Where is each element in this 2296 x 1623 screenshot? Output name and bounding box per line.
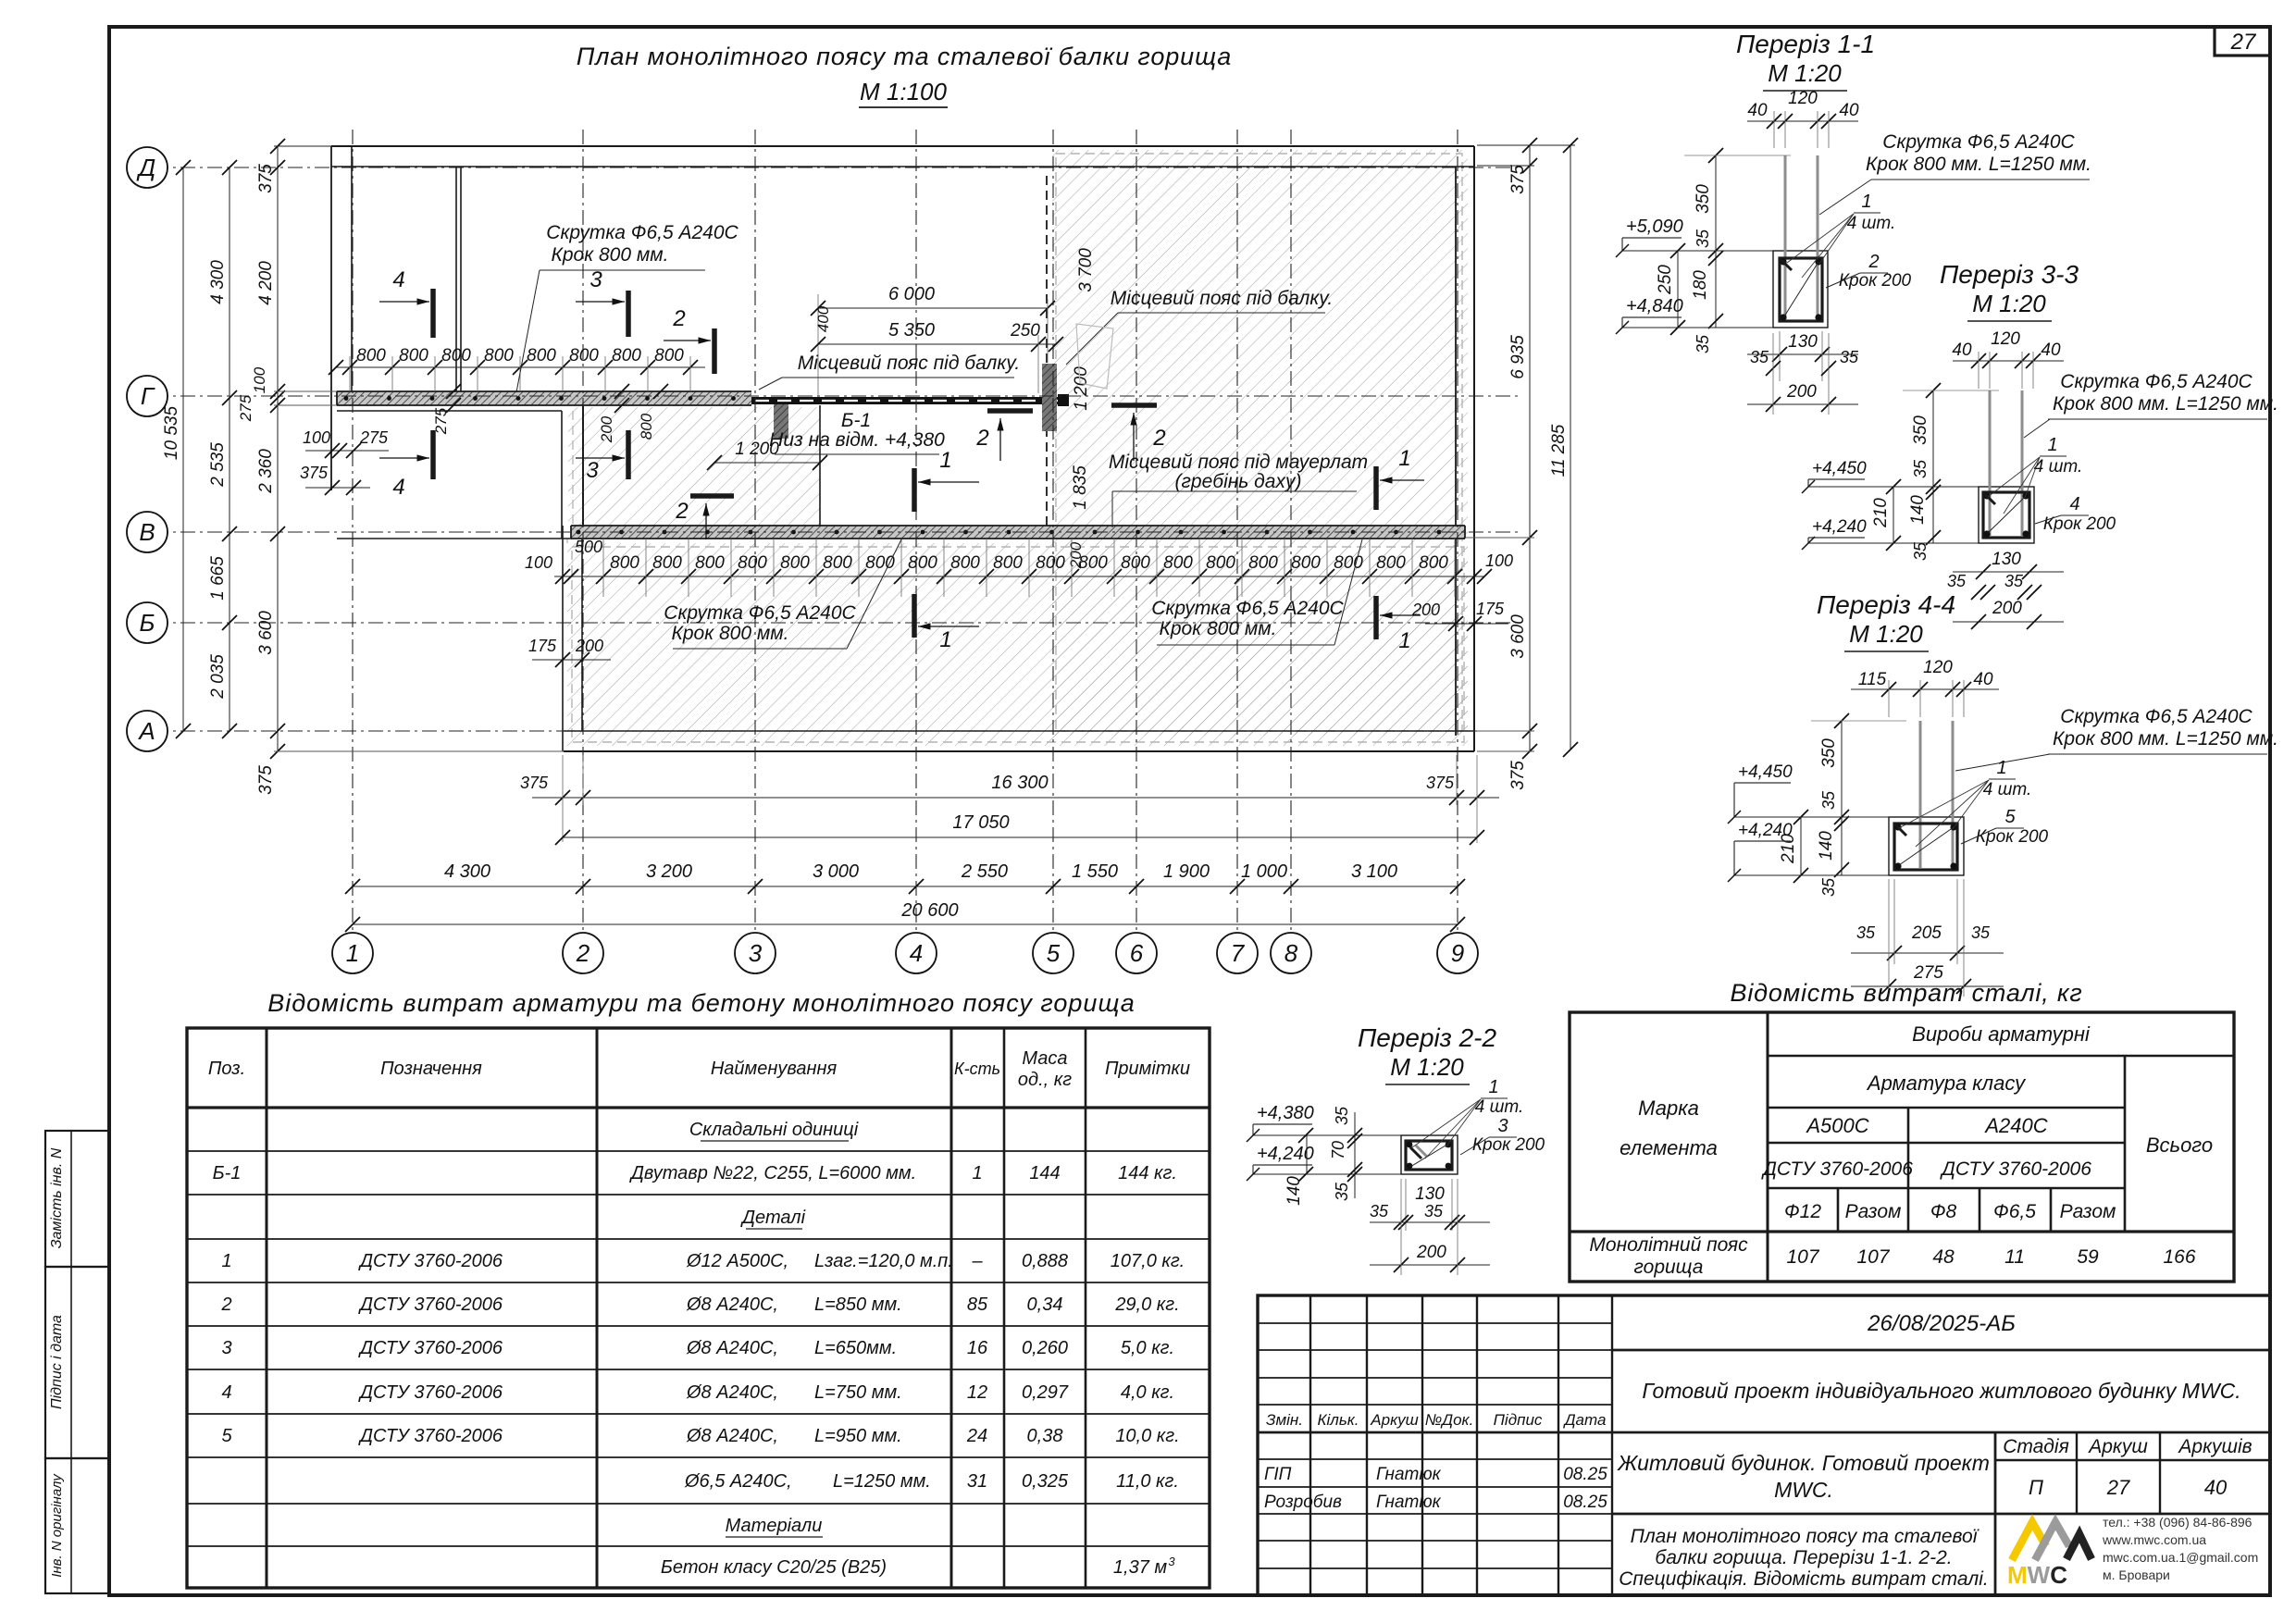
svg-text:175: 175 [1476, 600, 1505, 618]
svg-text:205: 205 [1911, 923, 1942, 943]
svg-text:800: 800 [610, 553, 639, 573]
svg-text:Крок 800 мм.: Крок 800 мм. [672, 623, 789, 644]
svg-text:35: 35 [1694, 229, 1712, 248]
svg-text:Разом: Разом [2060, 1201, 2116, 1222]
svg-text:115: 115 [1858, 670, 1887, 689]
bottom-left wall verticals [562, 526, 564, 751]
axis Д horizontal line [127, 167, 1522, 168]
small belt dims left [305, 450, 389, 452]
svg-text:+4,450: +4,450 [1738, 762, 1793, 782]
svg-text:ДСТУ 3760-2006: ДСТУ 3760-2006 [1761, 1158, 1913, 1180]
svg-text:11,0 кг.: 11,0 кг. [1116, 1471, 1179, 1492]
svg-text:Переріз 4-4: Переріз 4-4 [1817, 590, 1955, 619]
svg-text:6: 6 [1130, 939, 1144, 967]
top wall inner edge [331, 166, 1474, 167]
svg-text:Інв. N оригіналу: Інв. N оригіналу [49, 1473, 65, 1578]
svg-text:1: 1 [2047, 435, 2057, 455]
axis circle 4 [896, 933, 937, 973]
svg-text:35: 35 [1370, 1202, 1389, 1220]
svg-text:800: 800 [612, 346, 641, 365]
svg-text:27: 27 [2230, 30, 2257, 55]
svg-text:800: 800 [1163, 553, 1193, 573]
svg-text:800: 800 [1334, 553, 1363, 573]
svg-text:М 1:20: М 1:20 [1972, 290, 2046, 317]
monolithic belt on axis В [571, 526, 1465, 539]
svg-text:Ø12 А500С,: Ø12 А500С, [686, 1251, 788, 1271]
svg-text:130: 130 [1788, 332, 1818, 352]
bottom wall lines [564, 730, 1474, 732]
svg-text:Низ на відм. +4,380: Низ на відм. +4,380 [769, 429, 945, 451]
svg-text:35: 35 [1911, 459, 1930, 478]
svg-text:10 535: 10 535 [162, 406, 181, 461]
svg-text:2 535: 2 535 [208, 442, 228, 488]
svg-text:1 835: 1 835 [1071, 465, 1090, 510]
svg-text:од., кг: од., кг [1018, 1070, 1072, 1090]
svg-text:1 900: 1 900 [1163, 861, 1210, 882]
svg-text:800: 800 [738, 553, 767, 573]
svg-text:Гнатюк: Гнатюк [1376, 1465, 1442, 1484]
svg-text:Крок 800 мм. L=1250 мм.: Крок 800 мм. L=1250 мм. [2053, 393, 2278, 415]
svg-text:ДСТУ 3760-2006: ДСТУ 3760-2006 [358, 1426, 503, 1446]
svg-text:375: 375 [1426, 774, 1455, 792]
svg-text:0,34: 0,34 [1027, 1295, 1063, 1315]
svg-text:Специфікація. Відомість витрат: Специфікація. Відомість витрат сталі. [1619, 1568, 1988, 1590]
svg-text:140: 140 [1908, 495, 1928, 525]
svg-text:140: 140 [1817, 831, 1836, 861]
svg-text:5,0 кг.: 5,0 кг. [1121, 1338, 1174, 1358]
svg-text:Відомість витрат сталі, кг: Відомість витрат сталі, кг [1731, 979, 2083, 1007]
svg-text:Місцевий пояс під мауерлат: Місцевий пояс під мауерлат [1109, 452, 1368, 473]
svg-text:+4,240: +4,240 [1738, 821, 1793, 840]
svg-text:MWC.: MWC. [1774, 1478, 1833, 1502]
svg-text:ДСТУ 3760-2006: ДСТУ 3760-2006 [358, 1251, 503, 1271]
svg-text:5 350: 5 350 [888, 320, 935, 341]
svg-text:Бетон класу С20/25 (В25): Бетон класу С20/25 (В25) [661, 1557, 887, 1578]
section marker 2 [712, 328, 717, 374]
svg-text:План монолітного поясу та стал: План монолітного поясу та сталевої балки… [577, 43, 1232, 70]
axis 4 vertical line [915, 130, 917, 931]
hidden wall dashed at x=1131 [1046, 176, 1048, 526]
svg-text:4 шт.: 4 шт. [1475, 1097, 1524, 1117]
svg-text:350: 350 [1694, 184, 1713, 214]
svg-text:26/08/2025-АБ: 26/08/2025-АБ [1867, 1311, 2016, 1336]
hatched region bottom (R3) [567, 543, 1468, 746]
svg-text:Аркуш: Аркуш [2087, 1436, 2148, 1457]
svg-text:800: 800 [695, 553, 725, 573]
steel table [1570, 1012, 2234, 1282]
svg-text:210: 210 [1871, 498, 1891, 528]
dim row 800 below belt В [554, 576, 1484, 577]
section marker 3 [626, 430, 631, 479]
svg-text:mwc.com.ua.1@gmail.com: mwc.com.ua.1@gmail.com [2103, 1550, 2258, 1565]
svg-text:А500С: А500С [1805, 1114, 1868, 1137]
svg-text:35: 35 [1856, 923, 1876, 942]
svg-text:А240С: А240С [1983, 1114, 2047, 1137]
svg-text:1: 1 [939, 627, 951, 652]
svg-text:800: 800 [823, 553, 852, 573]
svg-text:Крок 800 мм.: Крок 800 мм. [1160, 618, 1277, 639]
section marker 1 [912, 594, 917, 638]
svg-text:200: 200 [1992, 599, 2022, 618]
svg-text:35: 35 [1424, 1202, 1444, 1220]
svg-text:Переріз 3-3: Переріз 3-3 [1940, 260, 2079, 289]
svg-text:08.25: 08.25 [1563, 1493, 1607, 1512]
axis 9 vertical line [1457, 130, 1458, 931]
axis В horizontal line [127, 531, 1522, 533]
svg-text:0,38: 0,38 [1027, 1426, 1063, 1446]
svg-text:3 200: 3 200 [646, 861, 692, 882]
svg-text:Складальні одиниці: Складальні одиниці [689, 1120, 859, 1140]
svg-text:800: 800 [1121, 553, 1150, 573]
axis 7 vertical line [1236, 130, 1238, 931]
section 3-3 bottom dims [1953, 571, 2064, 573]
svg-text:М 1:100: М 1:100 [860, 78, 947, 105]
svg-text:100: 100 [251, 366, 268, 393]
svg-text:29,0 кг.: 29,0 кг. [1114, 1295, 1179, 1315]
svg-text:4 шт.: 4 шт. [2034, 457, 2083, 477]
svg-text:1: 1 [1488, 1077, 1498, 1097]
svg-text:1: 1 [1398, 446, 1410, 471]
svg-text:Ø8 А240С,: Ø8 А240С, [686, 1426, 778, 1446]
axis circle 8 [1271, 933, 1311, 973]
dim 20600 [353, 923, 1458, 925]
dim column axis spans left [229, 167, 230, 731]
axis 1 vertical line [352, 130, 354, 931]
svg-text:Кільк.: Кільк. [1317, 1411, 1359, 1429]
svg-text:2: 2 [975, 426, 988, 451]
spec table [187, 1028, 1210, 1588]
svg-text:4 шт.: 4 шт. [1847, 214, 1896, 233]
svg-text:Маса: Маса [1022, 1048, 1067, 1069]
svg-text:Крок 200: Крок 200 [1472, 1135, 1545, 1155]
svg-text:6 935: 6 935 [1508, 335, 1528, 379]
section 4-4 top dims [1851, 688, 1999, 690]
svg-text:Скрутка Ф6,5 А240С: Скрутка Ф6,5 А240С [2060, 706, 2253, 727]
svg-text:3 600: 3 600 [1508, 614, 1528, 659]
svg-text:40: 40 [2041, 341, 2061, 360]
svg-text:К-сть: К-сть [954, 1059, 1000, 1078]
svg-text:м. Бровари: м. Бровари [2103, 1567, 2170, 1582]
svg-text:5: 5 [221, 1426, 232, 1446]
svg-text:Д: Д [136, 154, 155, 181]
svg-text:Аркушів: Аркушів [2177, 1436, 2252, 1457]
section marker 4 [430, 430, 436, 479]
section marker 2 [987, 408, 1033, 414]
svg-text:1 550: 1 550 [1072, 861, 1118, 882]
svg-text:+4,380: +4,380 [1257, 1103, 1314, 1123]
svg-text:35: 35 [1333, 1182, 1351, 1201]
svg-text:План монолітного поясу та стал: План монолітного поясу та сталевої [1631, 1526, 1980, 1547]
axis circle 6 [1116, 933, 1157, 973]
svg-text:800: 800 [484, 346, 514, 365]
right wall outer [1473, 146, 1475, 751]
svg-text:L=850 мм.: L=850 мм. [814, 1295, 902, 1315]
svg-text:L=1250 мм.: L=1250 мм. [833, 1471, 931, 1492]
left wall inner [351, 146, 353, 391]
section 1-1 bottom dims [1747, 353, 1858, 355]
svg-text:3: 3 [586, 458, 599, 483]
section 2-2 left dims [1354, 1112, 1356, 1198]
svg-text:7: 7 [1231, 939, 1246, 967]
svg-text:120: 120 [1991, 329, 2020, 349]
section 4-4 [1889, 817, 1964, 875]
svg-text:Гнатюк: Гнатюк [1376, 1493, 1442, 1512]
svg-text:175: 175 [528, 637, 557, 655]
section 1-1 [1773, 251, 1828, 328]
svg-text:М 1:20: М 1:20 [1768, 59, 1842, 87]
svg-text:200: 200 [1411, 601, 1440, 619]
axis 8 vertical line [1290, 130, 1292, 931]
section 3-3 top dims [1953, 360, 2064, 362]
svg-text:800: 800 [780, 553, 810, 573]
svg-text:Ø8 А240С,: Ø8 А240С, [686, 1338, 778, 1358]
svg-text:375: 375 [1508, 165, 1528, 194]
svg-text:17 050: 17 050 [952, 812, 1009, 833]
svg-text:800: 800 [1078, 553, 1108, 573]
svg-text:Всього: Всього [2146, 1134, 2213, 1157]
svg-text:№Док.: №Док. [1425, 1411, 1474, 1429]
svg-text:100: 100 [525, 553, 552, 572]
section 2-2 column [1401, 1135, 1458, 1174]
svg-text:1 200: 1 200 [1072, 366, 1091, 411]
svg-text:800: 800 [569, 346, 599, 365]
svg-text:Крок 800 мм. L=1250 мм.: Крок 800 мм. L=1250 мм. [2053, 728, 2278, 750]
axis 6 vertical line [1136, 130, 1137, 931]
left wall outer [330, 146, 332, 490]
svg-text:Скрутка Ф6,5 А240С: Скрутка Ф6,5 А240С [546, 222, 738, 243]
dim column 11285 [1570, 145, 1571, 750]
svg-text:Двутавр №22, С255, L=6000 мм.: Двутавр №22, С255, L=6000 мм. [629, 1163, 916, 1183]
svg-text:140: 140 [1285, 1176, 1304, 1206]
svg-text:MWC: MWC [2007, 1561, 2067, 1589]
svg-text:4: 4 [221, 1382, 231, 1403]
svg-text:375: 375 [256, 164, 276, 193]
svg-text:Позначення: Позначення [380, 1059, 482, 1079]
svg-text:Монолітний пояс: Монолітний пояс [1589, 1234, 1748, 1256]
svg-text:200: 200 [598, 415, 615, 443]
svg-text:40: 40 [1839, 101, 1859, 120]
section 1-1 left dims [1715, 155, 1717, 328]
top wall outer edge [331, 145, 1474, 147]
svg-text:800: 800 [1248, 553, 1278, 573]
svg-text:10,0 кг.: 10,0 кг. [1115, 1426, 1179, 1446]
svg-text:Підпис: Підпис [1494, 1411, 1543, 1429]
svg-text:ДСТУ 3760-2006: ДСТУ 3760-2006 [1940, 1158, 2091, 1180]
axis 3 vertical line [754, 130, 756, 931]
svg-text:5: 5 [1047, 939, 1061, 967]
steel beam B-1 [751, 397, 1062, 404]
svg-text:31: 31 [967, 1471, 987, 1492]
svg-text:500: 500 [575, 538, 602, 556]
svg-text:35: 35 [2004, 572, 2024, 590]
dim 5350 / 250 [818, 343, 1056, 345]
svg-text:Аркуш: Аркуш [1370, 1411, 1418, 1429]
svg-text:1 665: 1 665 [208, 556, 228, 601]
svg-text:тел.: +38 (096) 84-86-896: тел.: +38 (096) 84-86-896 [2103, 1515, 2253, 1530]
svg-text:Змін.: Змін. [1266, 1411, 1303, 1429]
svg-text:4: 4 [392, 267, 404, 292]
svg-text:Крок 800 мм.: Крок 800 мм. [552, 244, 669, 266]
svg-text:+4,240: +4,240 [1812, 517, 1867, 537]
svg-text:180: 180 [1691, 270, 1710, 300]
section 4-4 left dims [1841, 721, 1843, 875]
svg-text:1 000: 1 000 [1241, 861, 1287, 882]
section 1-1 dim 200 [1747, 403, 1858, 405]
svg-text:Ø8 А240С,: Ø8 А240С, [686, 1295, 778, 1315]
svg-text:1: 1 [346, 939, 359, 967]
svg-text:375: 375 [1508, 761, 1528, 790]
svg-text:3: 3 [1497, 1116, 1508, 1136]
monolithic belt on axis Г [337, 391, 751, 405]
svg-text:40: 40 [1747, 101, 1768, 120]
svg-text:Найменування: Найменування [711, 1059, 838, 1079]
svg-text:35: 35 [1911, 541, 1930, 561]
svg-text:40: 40 [1973, 670, 1993, 689]
svg-text:1,37 м: 1,37 м [1113, 1557, 1167, 1578]
axis circle 1 [332, 933, 373, 973]
section marker 3 [626, 291, 631, 337]
svg-text:П: П [2029, 1476, 2043, 1499]
svg-text:4: 4 [910, 939, 923, 967]
svg-text:800: 800 [638, 413, 655, 440]
section 3-3 left dims [1932, 390, 1934, 543]
svg-text:166: 166 [2163, 1246, 2195, 1268]
svg-text:1: 1 [221, 1251, 231, 1271]
svg-text:ГІП: ГІП [1264, 1465, 1292, 1484]
svg-text:А: А [137, 717, 155, 745]
svg-text:елемента: елемента [1620, 1136, 1718, 1159]
svg-text:3: 3 [221, 1338, 231, 1358]
svg-text:375: 375 [300, 464, 329, 482]
svg-text:М 1:20: М 1:20 [1390, 1053, 1464, 1081]
svg-text:100: 100 [303, 428, 330, 447]
svg-text:+4,240: +4,240 [1257, 1144, 1314, 1164]
dim row axis spans bottom [353, 886, 1458, 887]
svg-text:107,0 кг.: 107,0 кг. [1111, 1251, 1185, 1271]
svg-text:130: 130 [1415, 1184, 1445, 1204]
svg-text:Ø8 А240С,: Ø8 А240С, [686, 1382, 778, 1403]
section marker 1 [912, 468, 917, 512]
dim 1200 local belt [714, 462, 820, 464]
svg-text:16: 16 [967, 1338, 988, 1358]
svg-text:200: 200 [575, 637, 603, 655]
svg-text:40: 40 [1952, 341, 1972, 360]
axis circle 5 [1033, 933, 1074, 973]
svg-text:Відомість витрат арматури та б: Відомість витрат арматури та бетону моно… [267, 989, 1136, 1017]
R2 left thick edge at axis2 [582, 405, 584, 526]
svg-text:L=650мм.: L=650мм. [814, 1338, 897, 1358]
svg-text:Крок 200: Крок 200 [1839, 271, 1912, 291]
svg-text:800: 800 [1376, 553, 1406, 573]
svg-text:107: 107 [1856, 1246, 1890, 1268]
svg-text:2: 2 [672, 306, 685, 331]
svg-text:275: 275 [237, 394, 254, 422]
svg-text:Скрутка Ф6,5 А240С: Скрутка Ф6,5 А240С [1882, 131, 2075, 153]
svg-text:3 600: 3 600 [256, 611, 276, 655]
small flag outline [1076, 324, 1113, 389]
svg-text:Арматура класу: Арматура класу [1866, 1072, 2027, 1095]
svg-text:L=950 мм.: L=950 мм. [814, 1426, 902, 1446]
svg-text:59: 59 [2077, 1246, 2099, 1268]
svg-text:375: 375 [520, 774, 549, 792]
svg-text:М 1:20: М 1:20 [1849, 620, 1923, 648]
svg-text:Г: Г [141, 382, 155, 410]
svg-text:20 600: 20 600 [900, 900, 958, 921]
svg-text:800: 800 [993, 553, 1023, 573]
axis 5 vertical line [1052, 130, 1054, 931]
svg-text:ДСТУ 3760-2006: ДСТУ 3760-2006 [358, 1295, 503, 1315]
svg-text:800: 800 [1291, 553, 1321, 573]
svg-text:120: 120 [1923, 658, 1953, 677]
svg-text:(гребінь даху): (гребінь даху) [1175, 471, 1302, 492]
svg-text:250: 250 [1656, 265, 1675, 295]
svg-text:балки горища. Перерізи 1-1. 2-: балки горища. Перерізи 1-1. 2-2. [1655, 1547, 1952, 1568]
svg-text:2: 2 [220, 1295, 231, 1315]
svg-text:3: 3 [1168, 1555, 1175, 1568]
svg-text:0,260: 0,260 [1022, 1338, 1068, 1358]
svg-text:Крок 800 мм. L=1250 мм.: Крок 800 мм. L=1250 мм. [1866, 154, 2091, 175]
svg-text:1: 1 [972, 1163, 982, 1183]
svg-text:800: 800 [399, 346, 428, 365]
svg-text:800: 800 [441, 346, 471, 365]
dim 375/16300/375 [532, 797, 1499, 799]
svg-text:9: 9 [1451, 939, 1464, 967]
svg-text:1: 1 [1996, 758, 2006, 778]
section marker 2 [690, 493, 734, 499]
svg-text:800: 800 [865, 553, 895, 573]
svg-text:35: 35 [1694, 334, 1712, 353]
section 2-2 bottom dims [1405, 1179, 1407, 1231]
svg-text:2: 2 [576, 939, 590, 967]
dim 175/200 bottom-left [532, 659, 611, 661]
svg-text:35: 35 [1947, 572, 1967, 590]
section 4-4 bottom dims [1851, 952, 2004, 954]
svg-text:6 000: 6 000 [888, 284, 935, 304]
axis circle Г [127, 376, 168, 416]
svg-text:0,297: 0,297 [1022, 1382, 1069, 1403]
right wall inner [1455, 167, 1457, 736]
svg-text:12: 12 [967, 1382, 987, 1403]
section 3-3 [1979, 487, 2034, 543]
svg-text:Деталі: Деталі [740, 1208, 806, 1228]
interior partition top-left [455, 167, 457, 391]
svg-text:4 200: 4 200 [256, 261, 276, 305]
svg-text:+4,840: +4,840 [1626, 296, 1683, 316]
svg-text:350: 350 [1819, 738, 1839, 768]
svg-text:800: 800 [1419, 553, 1448, 573]
svg-text:800: 800 [527, 346, 556, 365]
svg-text:2: 2 [675, 499, 688, 524]
svg-text:www.mwc.com.ua: www.mwc.com.ua [2102, 1532, 2206, 1547]
svg-text:107: 107 [1786, 1246, 1819, 1268]
svg-text:3: 3 [590, 267, 602, 292]
svg-text:В: В [139, 518, 155, 546]
svg-text:3 000: 3 000 [813, 861, 859, 882]
title block [1258, 1295, 2270, 1595]
svg-text:100: 100 [1485, 551, 1513, 570]
MWC logo [2012, 1522, 2046, 1560]
svg-text:0,325: 0,325 [1022, 1471, 1069, 1492]
svg-text:Lзаг.=120,0 м.п.: Lзаг.=120,0 м.п. [814, 1251, 953, 1271]
svg-text:L=750 мм.: L=750 мм. [814, 1382, 902, 1403]
svg-text:4 300: 4 300 [208, 260, 228, 304]
hatched region top-right (R1) [1052, 150, 1468, 736]
svg-text:Готовий проект індивідуального: Готовий проект індивідуального житлового… [1642, 1379, 2240, 1403]
svg-text:40: 40 [2204, 1476, 2228, 1499]
svg-text:200: 200 [1786, 382, 1817, 402]
svg-text:Переріз 1-1: Переріз 1-1 [1736, 30, 1875, 58]
left margin boxes rotated labels [45, 1131, 109, 1267]
